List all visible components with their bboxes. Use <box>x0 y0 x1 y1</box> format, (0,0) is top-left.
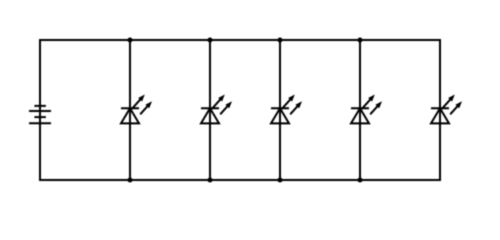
wire branch 2 <box>209 40 211 180</box>
node junction bottom 2 <box>207 177 212 182</box>
node junction top 1 <box>127 37 132 42</box>
LED D5 <box>431 95 462 124</box>
wire top rail <box>39 39 441 41</box>
wire bottom rail <box>39 179 441 181</box>
node junction bottom 4 <box>357 177 362 182</box>
LED D3 <box>271 95 302 124</box>
node junction top 3 <box>277 37 282 42</box>
LED D4 <box>351 95 382 124</box>
node junction bottom 1 <box>127 177 132 182</box>
LED D2 <box>201 95 232 124</box>
wire left branch <box>39 39 41 181</box>
node junction top 4 <box>357 37 362 42</box>
node junction bottom 3 <box>277 177 282 182</box>
wire branch 1 <box>129 40 131 180</box>
wire right branch <box>439 39 441 181</box>
node junction top 2 <box>207 37 212 42</box>
battery B1 <box>29 106 51 123</box>
wire branch 4 <box>359 40 361 180</box>
LED D1 <box>121 95 152 124</box>
wire branch 3 <box>279 40 281 180</box>
